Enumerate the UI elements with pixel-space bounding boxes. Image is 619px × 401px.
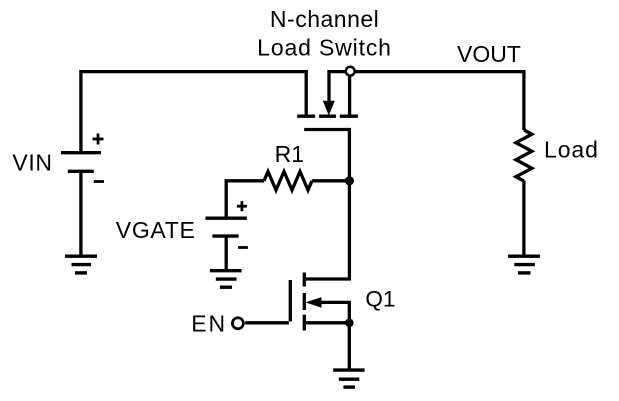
svg-text:VOUT: VOUT bbox=[457, 41, 521, 67]
svg-text:Q1: Q1 bbox=[365, 286, 395, 311]
svg-text:Load: Load bbox=[544, 137, 599, 163]
svg-text:VIN: VIN bbox=[12, 149, 52, 175]
svg-text:EN: EN bbox=[191, 311, 227, 337]
svg-text:R1: R1 bbox=[275, 141, 304, 167]
svg-text:Load Switch: Load Switch bbox=[257, 34, 392, 60]
svg-text:N-channel: N-channel bbox=[270, 6, 379, 32]
svg-text:VGATE: VGATE bbox=[116, 217, 196, 243]
